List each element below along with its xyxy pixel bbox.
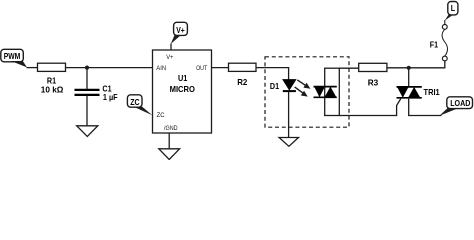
svg-text:U1: U1 xyxy=(178,73,188,83)
optocoupler dashed box xyxy=(265,57,349,127)
svg-text:TRI1: TRI1 xyxy=(424,87,440,97)
flag V+ xyxy=(171,22,188,44)
svg-text:ZC: ZC xyxy=(130,97,139,107)
wire opto top to R3 xyxy=(339,67,358,69)
wire R2 into opto box xyxy=(256,68,289,80)
resistor R3 xyxy=(359,63,387,87)
ground below U1 xyxy=(159,149,180,160)
svg-text:LOAD: LOAD xyxy=(450,98,470,108)
pin V+ stub xyxy=(170,44,172,51)
wire R3 to fuse riser xyxy=(387,61,445,68)
flag L xyxy=(445,2,458,25)
light arrows xyxy=(295,80,311,97)
svg-text:PWM: PWM xyxy=(4,51,21,61)
flag PWM xyxy=(1,49,27,67)
opto triac symbol xyxy=(314,87,337,98)
wire junction down to C1 xyxy=(86,68,88,89)
svg-text:L: L xyxy=(451,3,455,13)
wire R1 to AIN xyxy=(66,67,153,69)
wire OUT to R2 xyxy=(212,67,229,69)
fuse F1 xyxy=(430,25,448,61)
op-amp U1 MICRO box xyxy=(153,50,212,133)
svg-text:V+: V+ xyxy=(176,25,185,35)
wire /GND to ground xyxy=(168,133,170,149)
TRI1 gate wire xyxy=(339,99,401,116)
flag ZC xyxy=(127,95,152,115)
svg-text:D1: D1 xyxy=(270,81,279,91)
svg-text:V+: V+ xyxy=(166,54,173,61)
capacitor C1 xyxy=(75,84,118,102)
resistor R1 xyxy=(38,63,66,94)
svg-text:R3: R3 xyxy=(368,77,379,87)
ground below C1 xyxy=(77,126,98,137)
svg-text:1 µF: 1 µF xyxy=(103,92,118,102)
LED D1 xyxy=(270,80,296,92)
wire junction down to TRI1 xyxy=(408,68,410,87)
svg-text:F1: F1 xyxy=(430,40,439,50)
junction node at R1/C1 xyxy=(85,66,89,70)
opto triac package rect xyxy=(325,68,340,115)
TRI1 main terminal to LOAD xyxy=(409,99,442,116)
resistor R2 xyxy=(229,63,257,87)
svg-text:AIN: AIN xyxy=(156,65,166,72)
wire C1 to ground xyxy=(86,96,88,126)
svg-text:/GND: /GND xyxy=(164,125,178,132)
svg-text:ZC: ZC xyxy=(157,112,165,119)
svg-text:MICRO: MICRO xyxy=(170,84,196,94)
triac TRI1 xyxy=(397,87,440,98)
svg-text:OUT: OUT xyxy=(196,65,207,72)
wire PWM to R1 xyxy=(27,67,38,69)
junction node above TRI1 xyxy=(407,66,411,70)
svg-text:10 kΩ: 10 kΩ xyxy=(41,85,64,95)
flag LOAD xyxy=(439,97,472,116)
wire D1 to ground xyxy=(288,92,290,138)
ground below D1 xyxy=(279,138,298,147)
svg-text:R2: R2 xyxy=(237,77,247,87)
